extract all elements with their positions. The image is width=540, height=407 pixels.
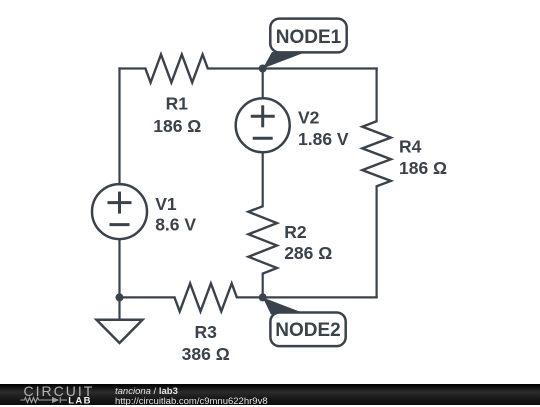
node junction dot NODE2 bbox=[259, 293, 267, 301]
svg-text:V2: V2 bbox=[298, 107, 320, 127]
svg-text:R1: R1 bbox=[166, 93, 189, 113]
svg-text:NODE1: NODE1 bbox=[276, 27, 342, 48]
voltage source V1 bbox=[92, 184, 147, 239]
wire V2 bottom to R2 top bbox=[262, 152, 264, 206]
wire mid rail node1 to V2 top bbox=[262, 69, 264, 99]
svg-text:8.6 V: 8.6 V bbox=[155, 215, 196, 235]
resistor R3 bbox=[175, 283, 237, 311]
voltage source V2 bbox=[236, 98, 290, 152]
node NODE2 callout box bbox=[270, 313, 345, 347]
svg-text:186 Ω: 186 Ω bbox=[399, 158, 447, 178]
svg-text:286 Ω: 286 Ω bbox=[284, 243, 332, 263]
svg-text:186 Ω: 186 Ω bbox=[153, 116, 201, 136]
node NODE1 callout pointer bbox=[263, 52, 302, 69]
node NODE2 callout pointer bbox=[263, 297, 302, 314]
svg-text:V1: V1 bbox=[155, 194, 177, 214]
svg-text:R2: R2 bbox=[284, 222, 307, 242]
resistor R1 bbox=[145, 55, 207, 83]
resistor R2 bbox=[248, 206, 277, 273]
wire right rail upper bbox=[376, 69, 378, 122]
footer title bbox=[115, 387, 178, 397]
ground bbox=[97, 320, 143, 343]
svg-text:1.86 V: 1.86 V bbox=[298, 129, 349, 149]
wire top rail left of R1 bbox=[120, 67, 146, 69]
svg-text:386 Ω: 386 Ω bbox=[182, 344, 230, 364]
CircuitLab logo bbox=[0, 384, 110, 406]
resistor R4 bbox=[362, 121, 391, 186]
wire left rail upper bbox=[118, 69, 120, 185]
wire right rail lower bbox=[376, 186, 378, 297]
wire top rail right of R1 to right rail bbox=[208, 67, 377, 69]
wire bottom rail left of R3 bbox=[120, 296, 175, 298]
svg-text:R3: R3 bbox=[195, 322, 218, 342]
node NODE1 callout box bbox=[270, 19, 346, 53]
svg-text:NODE2: NODE2 bbox=[275, 320, 340, 341]
footer url bbox=[115, 397, 268, 407]
svg-text:LAB: LAB bbox=[68, 395, 92, 405]
svg-text:R4: R4 bbox=[399, 136, 422, 156]
wire R2 bottom to node2 bbox=[262, 274, 264, 298]
wire left rail lower bbox=[118, 239, 120, 297]
node junction dot ground bbox=[116, 293, 124, 301]
node junction dot NODE1 bbox=[259, 65, 267, 73]
wire ground stub bbox=[118, 297, 120, 319]
wire bottom rail right of R3 bbox=[237, 296, 377, 298]
